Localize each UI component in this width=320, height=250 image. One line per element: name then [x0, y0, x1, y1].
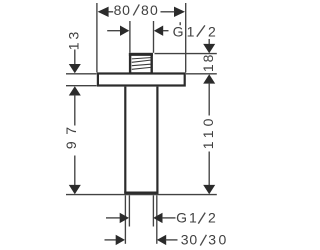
- ceiling plate: [98, 74, 185, 86]
- svg-text:2: 2: [208, 209, 216, 225]
- svg-text:18: 18: [200, 53, 216, 73]
- pipe outer-left extension line (below): [124, 195, 126, 244]
- thread extension line right (top): [153, 21, 155, 53]
- thread-left extension line (below): [128, 195, 130, 226]
- pipe (shower arm drop): [124, 87, 158, 193]
- svg-text:30: 30: [181, 231, 198, 247]
- thread hatch line 2: [132, 60, 151, 62]
- svg-text:80: 80: [114, 2, 131, 18]
- G 1/2 bottom: right arrowhead pointing left: [153, 213, 162, 223]
- 30/30: drawn slash: [200, 235, 206, 246]
- block top edge (extra thick): [129, 53, 153, 56]
- svg-text:1: 1: [189, 209, 197, 225]
- dimension 80/80: line segment right of text: [161, 11, 175, 13]
- svg-text:1: 1: [187, 23, 195, 39]
- G 1/2 top: drawn slash: [197, 25, 205, 36]
- dimension 80/80: left arrowhead: [98, 7, 109, 17]
- dimension 18: down arrowhead: [203, 44, 215, 53]
- svg-text:G: G: [176, 209, 187, 225]
- dimension 13: extension tick at plate bottom (left): [66, 85, 97, 87]
- threaded connector block (G 1/2 male thread, top): [129, 54, 153, 73]
- dimension 18: extension tick at plate top (right): [186, 73, 217, 75]
- dimension 18: extension tick at block top: [155, 53, 217, 55]
- dimension 80/80: drawn slash: [133, 4, 139, 15]
- svg-text:110: 110: [200, 114, 216, 149]
- extension line at pipe end (horizontal): [66, 194, 217, 196]
- G 1/2 top: right arrowhead pointing left: [154, 26, 163, 36]
- thread hatch line 4: [132, 67, 151, 69]
- dimension 80/80: left extension line: [96, 3, 98, 72]
- G 1/2 bottom: right leader line: [162, 217, 176, 219]
- svg-text:80: 80: [141, 2, 159, 18]
- dimension 110: down arrowhead at pipe end: [203, 185, 215, 194]
- svg-text:2: 2: [208, 23, 216, 39]
- small dash above G: [179, 22, 181, 25]
- dimension 97: upper line segment: [74, 95, 76, 126]
- svg-text:30: 30: [208, 231, 228, 247]
- dimension 110: upper line segment: [208, 83, 210, 116]
- 30/30: left arrowhead pointing right: [116, 235, 125, 245]
- svg-text:13: 13: [66, 29, 82, 51]
- 30/30: left leader line: [105, 239, 117, 241]
- dimension 13: extension tick at plate top (left): [66, 73, 97, 75]
- pipe bottom end: [124, 191, 158, 194]
- 30/30: right arrowhead pointing left: [157, 235, 166, 245]
- svg-text:97: 97: [63, 121, 79, 150]
- dimension 110: lower line segment: [208, 152, 210, 186]
- thread extension line left (top): [129, 21, 131, 53]
- dimension 97: up arrowhead at plate bottom: [69, 86, 81, 95]
- thread-right extension line (below): [152, 195, 154, 226]
- 30/30: right leader line: [166, 239, 178, 241]
- G 1/2 bottom: drawn slash: [198, 213, 205, 224]
- pipe left wall: [124, 87, 126, 193]
- G 1/2 top: right leader line: [163, 30, 169, 32]
- dimension 97: lower line segment: [74, 156, 76, 186]
- pipe right wall: [156, 87, 158, 193]
- G 1/2 top: left arrowhead pointing right: [120, 26, 129, 36]
- dimension 80/80: right arrowhead: [174, 7, 185, 17]
- dimension 110: up arrowhead at plate top: [203, 74, 215, 83]
- G 1/2 bottom: left leader line: [106, 217, 121, 219]
- dimension 13: down arrowhead: [69, 64, 81, 73]
- dimension 13: stub line below text: [74, 50, 76, 65]
- svg-text:G: G: [173, 23, 184, 39]
- thread hatch line 3: [132, 64, 151, 66]
- dimension 80/80: right extension line: [185, 3, 187, 72]
- G 1/2 bottom: left arrowhead pointing right: [120, 213, 129, 223]
- dimension 80/80: stub left of text: [109, 11, 114, 13]
- dimension 18: upper stub line: [208, 39, 210, 46]
- thread hatch line 1: [132, 58, 151, 59]
- dimension 97: down arrowhead at pipe end: [69, 185, 81, 194]
- G 1/2 top: left leader line: [107, 30, 121, 32]
- pipe outer-right extension line (below): [156, 195, 158, 244]
